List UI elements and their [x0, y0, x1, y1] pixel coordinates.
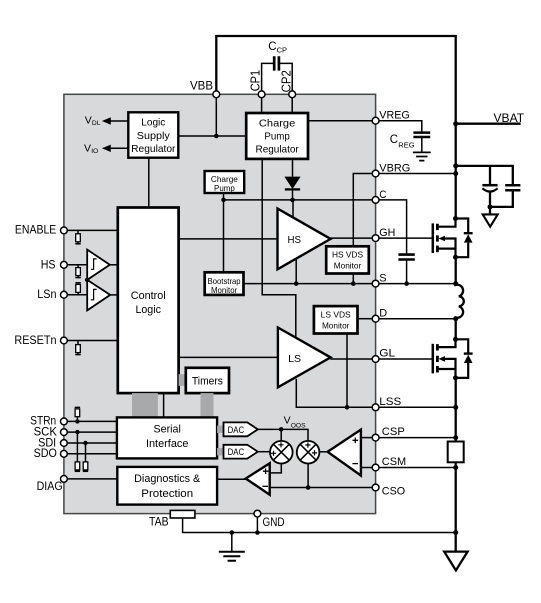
wire VREG from CPR to pin: [308, 120, 372, 122]
wire mixer1 bottom to diag amp plus: [270, 464, 282, 473]
schmitt symbol LSn: [91, 289, 97, 299]
pin GL: [372, 356, 379, 363]
svg-text:CSP: CSP: [382, 426, 405, 438]
svg-text:DAC: DAC: [228, 425, 245, 435]
resistor RESETn pulldown: [75, 341, 80, 355]
wire CPR to LS driver supply: [262, 159, 296, 338]
capacitor bulk ceramic plates: [505, 185, 520, 190]
ground symbol C_REG (3 bars): [413, 152, 431, 160]
pin SDO: [61, 450, 68, 457]
box U5 Bootstrap Monitor: [205, 272, 244, 295]
wire mixer2 bottom to CSO line: [307, 464, 309, 488]
junction CSM/rail: [453, 465, 458, 470]
wire top rail VBB to VBAT corner: [216, 36, 455, 125]
svg-text:Logic: Logic: [135, 304, 161, 316]
junction VBRG/rail: [453, 171, 458, 176]
junction LSS/rail: [453, 405, 458, 410]
junction ground symbol: [230, 530, 235, 535]
junction HS bottom/S line: [294, 281, 299, 286]
pin VBRG: [372, 170, 379, 177]
junction SDI pulldown: [83, 441, 87, 445]
svg-text:Monitor: Monitor: [211, 285, 238, 295]
wire C external to bootstrap cap: [379, 200, 407, 254]
text Charge Pump Regulator: [256, 118, 300, 156]
junction GND line/rail: [453, 530, 458, 535]
svg-text:CP1: CP1: [248, 70, 263, 91]
inductor coil: [456, 284, 464, 319]
junction GND pin: [255, 530, 260, 535]
wire CPR to diode: [292, 159, 294, 177]
wire rail below sense resistor: [455, 462, 457, 551]
svg-text:CP2: CP2: [278, 70, 293, 92]
wire DAC2 out to mixer1: [258, 451, 270, 453]
text Serial Interface: [146, 423, 189, 450]
svg-text:V: V: [85, 114, 92, 126]
wire schmitt LSn out: [110, 294, 118, 296]
text LS VDS Monitor: [321, 309, 351, 330]
junction S/rail: [453, 281, 458, 286]
svg-text:S: S: [379, 273, 386, 285]
svg-text:DIAG: DIAG: [37, 481, 63, 493]
junction branch/rail: [453, 163, 458, 168]
wire C line: [224, 199, 373, 201]
pin CP1: [258, 91, 265, 98]
pin CSO: [372, 484, 379, 491]
pin SDI: [61, 440, 68, 447]
wire CSP input: [361, 437, 372, 439]
wire DAC1 to mixer1 top: [280, 429, 282, 441]
svg-text:V: V: [84, 143, 91, 155]
wire HS driver bottom to S line: [295, 259, 297, 284]
text Charge Pump: [211, 174, 238, 193]
buffer schmitt LSn: [87, 280, 110, 311]
svg-text:LS: LS: [288, 354, 301, 365]
mixer2 summing circle: [297, 441, 320, 464]
resistor HS pulldown: [75, 265, 80, 278]
box U10 Diagnostics and Protection: [117, 467, 217, 505]
wire VBRG internal to HS VDS monitor: [353, 174, 372, 247]
svg-text:CSO: CSO: [382, 486, 406, 498]
svg-text:ENABLE: ENABLE: [15, 225, 57, 237]
box U7 LS VDS Monitor: [314, 306, 358, 333]
wire S line internal: [244, 283, 373, 285]
junction bootstrap/S: [404, 281, 409, 286]
plus sign diag amp: [263, 468, 269, 474]
amplifier HS driver: [278, 209, 331, 270]
wire CSM input: [361, 467, 372, 469]
wire S external: [379, 283, 456, 285]
junction mixer2/CSO line: [306, 485, 311, 490]
svg-text:REG: REG: [398, 140, 414, 149]
minus sign diag amp: [262, 485, 268, 487]
svg-text:CSM: CSM: [382, 456, 406, 468]
wire LSR bottom to Control Logic: [148, 158, 150, 208]
wire SCK: [67, 431, 117, 433]
pin CSM: [372, 464, 379, 471]
wire ceramic cap bottom to junction: [490, 191, 513, 207]
pin GND: [254, 510, 261, 517]
DAC1 pentagon: [224, 422, 258, 436]
wire CP2 lead up to Ccp: [280, 63, 292, 91]
svg-text:GH: GH: [379, 227, 395, 239]
pin D: [372, 315, 379, 322]
wire HS VDS monitor bottom to S line: [352, 274, 354, 284]
wire Creg to ground: [421, 137, 423, 152]
wire GL from LS apex to pin: [330, 358, 372, 360]
wire HS input to schmitt: [67, 264, 87, 266]
junction D/rail: [453, 316, 458, 321]
box U3 Charge Pump: [205, 171, 245, 193]
svg-text:LSS: LSS: [379, 396, 401, 408]
wire D external: [379, 318, 456, 320]
svg-text:Interface: Interface: [146, 438, 189, 450]
wire CP1 lead up to Ccp: [262, 63, 274, 91]
resistor SCK pulldown: [75, 432, 80, 471]
wire DIAG: [67, 478, 117, 480]
resistor SDI pulldown: [83, 443, 88, 471]
wire STRn: [67, 420, 117, 422]
svg-text:Pump: Pump: [264, 131, 290, 143]
ground triangle (system): [444, 552, 467, 571]
junction HSVDS bottom/S line: [351, 281, 356, 286]
pin RESETn: [61, 337, 68, 344]
svg-text:LS VDS: LS VDS: [321, 309, 351, 319]
plus sign CS amp: [353, 438, 359, 444]
wire rail LS source to GND triangle: [455, 378, 457, 442]
pin DIAG: [61, 476, 68, 483]
wire CSP external: [379, 437, 456, 439]
IC block body: [64, 94, 376, 513]
pin VREG: [372, 117, 379, 124]
arrowhead VIO: [102, 145, 111, 152]
text Bootstrap Monitor: [208, 276, 241, 295]
ground symbol chip (3 bars): [219, 552, 245, 561]
wire Control Logic to Serial Interface: [163, 393, 165, 417]
wire LS VDS monitor bottom to LSS line: [346, 334, 348, 408]
junction CSP/rail: [453, 435, 458, 440]
svg-text:TAB: TAB: [149, 517, 169, 529]
transistor Q2 LS MOSFET symbol: [433, 339, 456, 378]
svg-text:C: C: [268, 41, 276, 53]
wire LS driver bottom to LSS line: [296, 379, 372, 408]
text Control Logic: [131, 290, 166, 316]
amplifier CS sense: [328, 430, 361, 476]
wire CP1 into CPR: [261, 98, 263, 113]
wire GL handled by gate lead, LSS external: [379, 406, 456, 408]
svg-text:Regulator: Regulator: [131, 143, 176, 155]
bus Serial to DAC1: [217, 426, 223, 433]
wire C line to HS driver top: [292, 200, 294, 218]
wire CSO line: [270, 487, 373, 489]
box U6 HS VDS Monitor: [326, 246, 369, 273]
box U1 Logic Supply Regulator: [128, 112, 178, 157]
svg-text:V: V: [284, 415, 291, 427]
bus Serial to DAC2: [217, 448, 223, 455]
svg-text:C: C: [390, 134, 398, 146]
wire VBB vertical to internal node: [215, 94, 217, 136]
box U9 Serial Interface: [117, 417, 217, 458]
buffer schmitt HS: [87, 250, 110, 280]
wire right rail HS source to S: [455, 257, 457, 283]
svg-text:Protection: Protection: [141, 488, 193, 500]
svg-text:Serial: Serial: [154, 423, 181, 435]
capacitor bootstrap plates: [398, 255, 414, 260]
svg-text:HS VDS: HS VDS: [332, 249, 363, 259]
capacitor bulk polarized curved plate: [482, 188, 497, 191]
svg-text:DL: DL: [92, 120, 101, 127]
wire LSR output to CPR: [178, 135, 246, 137]
junction HS source: [453, 255, 458, 260]
pin VBB: [213, 91, 220, 98]
svg-text:CP: CP: [277, 46, 287, 55]
pin ENABLE: [61, 227, 68, 234]
text Diagnostics Protection: [134, 473, 201, 500]
diode charge pump: [284, 177, 300, 200]
bus Timers to Serial Interface: [201, 393, 214, 417]
svg-text:Diagnostics &: Diagnostics &: [134, 473, 201, 485]
pin LSS: [372, 404, 379, 411]
wire polarized cap lead: [489, 166, 491, 184]
wire right rail upper: [455, 125, 457, 219]
pin SCK: [61, 429, 68, 436]
junction SCK pulldown: [75, 430, 79, 434]
svg-text:Charge: Charge: [259, 118, 295, 130]
junction DAC1 out: [279, 427, 284, 432]
text HS VDS Monitor: [332, 249, 363, 270]
resistor LSn pullup: [75, 283, 80, 295]
wire Control Logic to HS driver: [179, 238, 278, 240]
pin CSP: [372, 434, 379, 441]
wire ground stub: [231, 533, 233, 552]
ground triangle (bulk caps): [483, 214, 498, 226]
wire LSn input to schmitt: [67, 294, 87, 296]
wire VDL arrow: [109, 120, 129, 122]
resistor STRn pullup: [75, 407, 80, 421]
wire GND pin down: [256, 517, 258, 533]
wire bootstrap cap to S line: [406, 261, 408, 284]
pin S: [372, 280, 379, 287]
svg-text:SDO: SDO: [34, 448, 57, 460]
junction STRn pullup: [75, 419, 79, 423]
svg-text:VBRG: VBRG: [379, 162, 410, 174]
wire Control Logic to LS driver: [179, 356, 278, 358]
transistor Q1 HS MOSFET gate lead: [379, 237, 433, 239]
svg-text:VBAT: VBAT: [494, 113, 525, 125]
pad TAB: [170, 510, 195, 518]
resistor sense: [448, 442, 464, 463]
wire diag amp out to Diagnostics box: [217, 478, 246, 480]
wire VBRG external to rail: [379, 173, 456, 175]
minus sign CS amp: [352, 463, 358, 465]
wire schmitt HS out: [110, 264, 118, 266]
box U8 Timers: [186, 368, 229, 393]
amplifier LS driver: [278, 328, 331, 388]
transistor Q2 LS MOSFET gate lead: [379, 358, 433, 360]
svg-text:IO: IO: [91, 148, 98, 155]
wire VREG external to Creg: [379, 121, 422, 132]
text Logic Supply Regulator: [131, 116, 176, 155]
svg-text:LSn: LSn: [37, 289, 56, 301]
pin CP2: [289, 91, 296, 98]
wire VBAT line: [456, 123, 521, 125]
wire SDI: [67, 442, 117, 444]
pin LSn: [61, 291, 68, 298]
svg-text:D: D: [379, 308, 387, 320]
capacitor C_REG plates: [413, 133, 430, 137]
svg-text:Pump: Pump: [214, 183, 235, 193]
junction cap bottoms: [488, 204, 493, 209]
bus Control Logic to Timers: [179, 374, 186, 386]
wire TAB to ground line: [183, 518, 456, 533]
junction charge pump/C line: [221, 198, 226, 203]
wire CP2 into CPR: [291, 98, 293, 113]
wire RESETn to Control Logic: [67, 340, 118, 342]
diode HS body diode: [456, 219, 473, 258]
wire DAC1 out / VOOS line: [258, 429, 308, 441]
pin STRn: [61, 418, 68, 425]
junction LSVDS/LSS line: [345, 405, 350, 410]
svg-text:Regulator: Regulator: [256, 144, 300, 156]
svg-text:Monitor: Monitor: [322, 320, 350, 330]
pin HS: [61, 261, 68, 268]
capacitor C_CP plates: [274, 56, 279, 70]
svg-text:Monitor: Monitor: [334, 260, 362, 270]
pin C: [372, 197, 379, 204]
wire CSM external: [379, 467, 456, 469]
bus Control Logic to Serial Interface: [132, 393, 158, 417]
wire polarized cap bottom: [489, 192, 491, 214]
wire rail D to LS drain: [455, 319, 457, 340]
junction schmitt pair: [85, 278, 90, 283]
svg-text:C: C: [379, 189, 386, 201]
junction LS source: [453, 375, 458, 380]
svg-text:VREG: VREG: [379, 110, 410, 122]
svg-text:Supply: Supply: [137, 130, 171, 142]
svg-text:DAC: DAC: [228, 447, 245, 457]
wire SDO: [67, 453, 117, 455]
junction LS drain: [453, 337, 458, 342]
resistor ENABLE pulldown: [75, 230, 80, 243]
wire bulk cap branch: [456, 166, 513, 185]
svg-text:OOS: OOS: [291, 423, 306, 430]
amplifier diag comparator: [246, 463, 270, 494]
pin GH: [372, 235, 379, 242]
svg-text:GL: GL: [379, 348, 395, 360]
junction VBAT/rail: [453, 121, 458, 126]
mixer1 summing circle: [270, 441, 293, 464]
svg-text:HS: HS: [41, 259, 56, 271]
svg-text:Control: Control: [131, 290, 166, 302]
wire GH from HS apex to pin: [330, 237, 372, 239]
svg-text:HS: HS: [288, 235, 302, 246]
capacitor bulk polarized top plate: [482, 184, 497, 187]
arrowhead VDL: [102, 117, 111, 124]
DAC2 pentagon: [224, 445, 258, 459]
svg-text:VBB: VBB: [190, 81, 213, 93]
diode LS body diode: [456, 339, 473, 378]
svg-text:GND: GND: [263, 517, 285, 529]
svg-text:RESETn: RESETn: [14, 335, 56, 347]
wire CS amp out to mixer2: [319, 451, 327, 453]
transistor Q1 HS MOSFET symbol: [433, 219, 456, 258]
junction diode/C line: [290, 198, 295, 203]
wire D line to LS VDS monitor: [358, 318, 373, 320]
wire ENABLE to Control Logic: [67, 229, 118, 231]
junction HS drain: [453, 216, 458, 221]
svg-text:Timers: Timers: [192, 375, 223, 387]
wire charge pump box to bootstrap monitor: [223, 193, 225, 272]
svg-text:Logic: Logic: [141, 116, 165, 128]
box U2 Charge Pump Regulator: [246, 113, 308, 159]
wire VIO arrow: [109, 147, 129, 149]
schmitt symbol HS: [91, 259, 97, 269]
junction VBB/LSR line: [214, 134, 219, 139]
box U4 Control Logic: [118, 208, 179, 394]
